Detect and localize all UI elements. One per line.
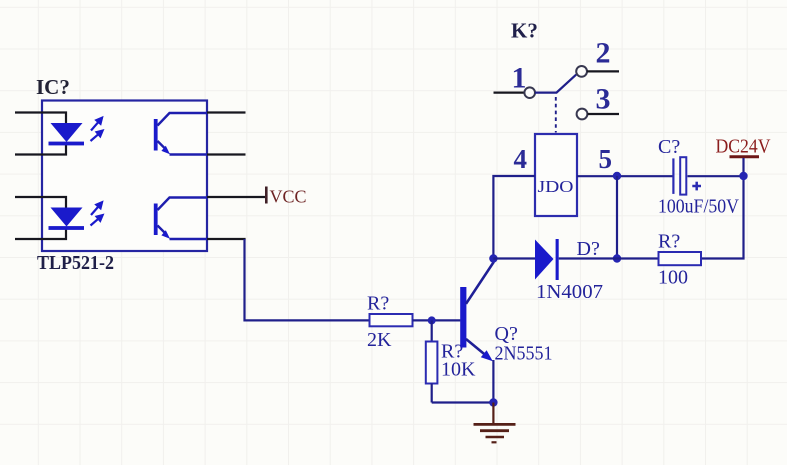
svg-text:TLP521-2: TLP521-2: [37, 252, 114, 274]
dashed actuator link: [555, 97, 557, 133]
svg-text:D?: D?: [577, 238, 600, 260]
wire pin3 left stub ch2 anode: [15, 197, 66, 208]
contact 2 circle: [576, 66, 587, 77]
svg-text:10K: 10K: [441, 359, 476, 381]
svg-text:3: 3: [596, 83, 611, 116]
phototransistor ch1: [154, 113, 207, 155]
resistor R? 100 body: [659, 252, 702, 265]
svg-text:2: 2: [596, 37, 611, 70]
junction dot base node: [428, 316, 436, 324]
transistor Q? emitter path with arrow: [466, 339, 493, 403]
svg-text:R?: R?: [658, 231, 680, 253]
wire ch2 emitter stub: [207, 238, 246, 240]
transistor Q? collector path: [466, 259, 493, 304]
wire ch1 collector right stub: [207, 111, 246, 113]
wire ch2 collector stub to VCC: [207, 196, 265, 198]
wire cap to right rail: [688, 175, 744, 177]
label R? (100): [658, 231, 680, 253]
label TLP521-2: [37, 252, 114, 274]
label K?: [511, 19, 538, 43]
wire diode anode: [493, 257, 535, 259]
svg-text:100: 100: [658, 267, 688, 289]
label C?: [658, 136, 680, 158]
wire to R100: [617, 257, 659, 259]
DC24V power port bar: [730, 155, 760, 158]
junction dot pin5 node: [613, 172, 621, 180]
LED ch2 emission arrows: [91, 202, 103, 225]
svg-text:C?: C?: [658, 136, 680, 158]
wire down from opto to base resistor: [245, 239, 370, 320]
phototransistor ch2: [154, 198, 207, 240]
wire diode cathode: [559, 257, 617, 259]
transistor Q? base bar: [460, 287, 466, 348]
label pin 5: [599, 144, 613, 174]
ground symbol: [474, 403, 516, 443]
relay coil K? box JDO: [535, 134, 577, 216]
label 100: [658, 267, 688, 289]
LED ch1 emission arrows: [91, 118, 103, 141]
svg-text:DC24V: DC24V: [716, 136, 771, 158]
label 2N5551: [495, 343, 553, 365]
wire pin4 left stub ch2 cathode: [15, 229, 66, 240]
capacitor plus sign: [692, 182, 701, 191]
svg-text:VCC: VCC: [270, 187, 307, 207]
junction dot diode anode node: [489, 254, 497, 262]
LED D-ch1 triangle: [49, 123, 85, 145]
wire coil pin4 to collector node: [493, 176, 535, 259]
wire ch1 emitter right stub: [207, 153, 246, 155]
svg-text:2N5551: 2N5551: [495, 343, 553, 365]
label DC24V: [716, 136, 771, 158]
label 10K: [441, 359, 476, 381]
svg-text:100uF/50V: 100uF/50V: [658, 196, 739, 218]
contact 1 circle: [524, 87, 535, 98]
wire pin1 left stub ch1 anode: [15, 113, 66, 124]
svg-text:2K: 2K: [367, 329, 392, 351]
svg-text:R?: R?: [367, 293, 389, 315]
wire 2K to base node to transistor base: [413, 319, 461, 321]
wire contact 1 stub: [494, 91, 525, 93]
svg-text:1N4007: 1N4007: [536, 281, 603, 303]
junction dot DC24V node: [739, 172, 747, 180]
wire contact 2 stub: [587, 70, 619, 72]
relay armature: [535, 75, 576, 93]
wire coil pin5 to cap: [577, 175, 673, 177]
label R? (2K): [367, 293, 389, 315]
wire pin2 left stub ch1 cathode: [15, 144, 66, 155]
junction dot left rail bottom: [613, 254, 621, 262]
label D?: [577, 238, 600, 260]
wire contact 3 stub: [588, 113, 620, 115]
label Q?: [495, 323, 518, 345]
label 100uF/50V: [658, 196, 739, 218]
svg-text:JDO: JDO: [538, 177, 574, 196]
svg-text:1: 1: [512, 62, 527, 95]
label IC?: [36, 75, 70, 99]
wire right rail: [701, 158, 744, 259]
label pin 1: [512, 62, 527, 95]
label 2K: [367, 329, 392, 351]
svg-text:IC?: IC?: [36, 75, 70, 99]
label JDO: [538, 177, 574, 196]
label pin 3: [596, 83, 611, 116]
svg-text:4: 4: [514, 144, 528, 174]
optocoupler U1 box outline: [42, 101, 207, 252]
resistor R? 10K body and wires: [426, 320, 438, 402]
contact 3 circle: [577, 109, 588, 120]
VCC power port bar: [265, 187, 268, 204]
resistor R? 2K body: [370, 314, 413, 326]
svg-text:K?: K?: [511, 19, 538, 43]
junction dot emitter node: [489, 398, 497, 406]
wire left rail down: [616, 176, 618, 259]
label VCC: [270, 187, 307, 207]
svg-text:5: 5: [599, 144, 613, 174]
label pin 4: [514, 144, 528, 174]
label R? (10K): [441, 341, 463, 363]
label pin 2: [596, 37, 611, 70]
wire emitter node row: [432, 401, 494, 403]
LED D-ch2 triangle: [49, 208, 85, 230]
diode D? 1N4007: [535, 239, 559, 280]
capacitor C? plates: [672, 157, 686, 194]
label 1N4007: [536, 281, 603, 303]
